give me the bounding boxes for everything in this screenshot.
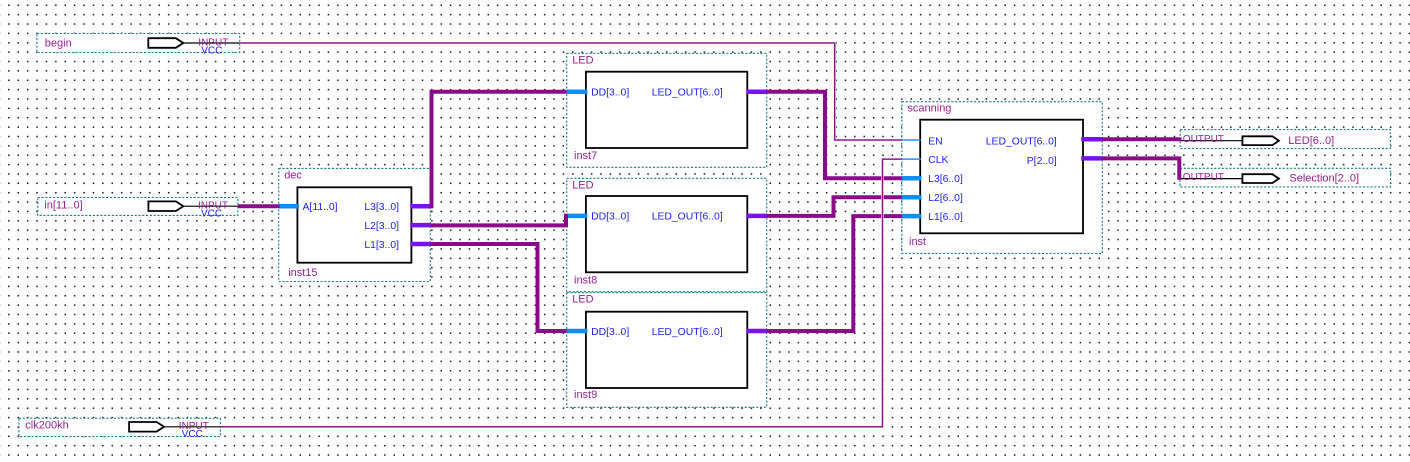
bus wire dec L2 to inst8 DD xyxy=(430,214,566,226)
scanning port stub CLK xyxy=(902,158,921,160)
bus wire inst7 LED_OUT to scanning L3 xyxy=(767,92,902,179)
svg-text:L1[3..0]: L1[3..0] xyxy=(364,240,399,251)
bus wire scanning LED_OUT to output LED[6..0] xyxy=(1102,137,1182,141)
svg-text:LED_OUT[6..0]: LED_OUT[6..0] xyxy=(652,88,723,99)
svg-text:L1[6..0]: L1[6..0] xyxy=(928,212,963,223)
svg-text:LED: LED xyxy=(572,54,593,66)
svg-text:L3[6..0]: L3[6..0] xyxy=(928,174,963,185)
wire begin to scanning EN xyxy=(240,43,902,140)
inst7 port stub DD[3..0] xyxy=(567,89,588,94)
bus wire dec L3 to inst7 DD xyxy=(432,92,567,209)
svg-text:LED_OUT[6..0]: LED_OUT[6..0] xyxy=(986,136,1057,147)
svg-text:begin: begin xyxy=(45,37,72,49)
svg-text:inst: inst xyxy=(909,236,926,248)
block LED inst9 xyxy=(567,293,767,408)
bus wire in[11..0] to dec A xyxy=(238,204,280,208)
svg-text:DD[3..0]: DD[3..0] xyxy=(591,212,629,223)
input pin in[11..0] xyxy=(38,198,238,220)
inst7 port stub LED_OUT[6..0] xyxy=(746,89,767,94)
svg-text:OUTPUT: OUTPUT xyxy=(1183,134,1224,145)
svg-text:L3[3..0]: L3[3..0] xyxy=(364,202,399,213)
svg-text:VCC: VCC xyxy=(201,45,222,56)
svg-text:VCC: VCC xyxy=(201,209,222,220)
svg-text:scanning: scanning xyxy=(907,103,951,115)
bus wire scanning P to output Selection[2..0] xyxy=(1102,158,1179,179)
svg-text:DD[3..0]: DD[3..0] xyxy=(591,327,629,338)
svg-text:LED: LED xyxy=(572,294,593,306)
svg-text:in[11..0]: in[11..0] xyxy=(44,199,82,211)
svg-text:LED_OUT[6..0]: LED_OUT[6..0] xyxy=(652,212,723,223)
svg-text:VCC: VCC xyxy=(182,429,203,440)
scanning port stub L1[6..0] xyxy=(902,214,922,219)
inst8 port stub LED_OUT[6..0] xyxy=(746,214,767,219)
inst8 port stub DD[3..0] xyxy=(567,214,588,219)
block dec inst15 xyxy=(279,168,431,281)
block LED inst8 xyxy=(567,178,767,291)
svg-text:LED_OUT[6..0]: LED_OUT[6..0] xyxy=(652,327,723,338)
scanning port stub LED_OUT[6..0] xyxy=(1081,137,1102,142)
svg-text:CLK: CLK xyxy=(928,155,948,166)
input pin clk200kh xyxy=(19,418,221,440)
dec port stub L1[3..0] xyxy=(410,242,430,247)
svg-text:LED: LED xyxy=(572,179,593,191)
svg-text:A[11..0]: A[11..0] xyxy=(303,202,338,213)
bus wire inst8 LED_OUT to scanning L2 xyxy=(767,197,902,216)
scanning port stub L2[6..0] xyxy=(902,195,922,200)
dec port stub A[11..0] xyxy=(279,204,299,209)
scanning port stub EN xyxy=(902,139,921,141)
svg-text:dec: dec xyxy=(284,169,302,181)
svg-text:P[2..0]: P[2..0] xyxy=(1027,156,1057,167)
svg-text:EN: EN xyxy=(928,136,942,147)
block scanning inst xyxy=(902,102,1102,254)
scanning port stub L3[6..0] xyxy=(902,176,922,181)
inst9 port stub DD[3..0] xyxy=(567,329,588,334)
block LED inst7 xyxy=(567,53,767,167)
dec port stub L3[3..0] xyxy=(410,204,430,209)
bus wire dec L1 to inst9 DD xyxy=(430,244,567,331)
svg-text:inst8: inst8 xyxy=(574,275,597,287)
svg-text:OUTPUT: OUTPUT xyxy=(1183,172,1224,183)
wire clk200kh to scanning CLK xyxy=(221,159,902,427)
svg-text:L2[6..0]: L2[6..0] xyxy=(928,193,963,204)
svg-text:inst15: inst15 xyxy=(288,267,317,279)
output pin Selection[2..0] xyxy=(1180,168,1391,187)
svg-text:Selection[2..0]: Selection[2..0] xyxy=(1289,173,1359,185)
inst9 port stub LED_OUT[6..0] xyxy=(746,329,767,334)
bus wire inst9 LED_OUT to scanning L1 xyxy=(767,216,902,331)
dec port stub L2[3..0] xyxy=(410,223,430,228)
svg-text:inst7: inst7 xyxy=(574,150,597,162)
svg-text:LED[6..0]: LED[6..0] xyxy=(1288,135,1334,147)
svg-text:clk200kh: clk200kh xyxy=(25,420,68,432)
svg-text:inst9: inst9 xyxy=(574,389,597,401)
svg-text:L2[3..0]: L2[3..0] xyxy=(364,221,399,232)
scanning port stub P[2..0] xyxy=(1081,156,1102,161)
input pin begin xyxy=(37,34,240,57)
output pin LED[6..0] xyxy=(1180,130,1390,149)
svg-text:DD[3..0]: DD[3..0] xyxy=(591,88,629,99)
